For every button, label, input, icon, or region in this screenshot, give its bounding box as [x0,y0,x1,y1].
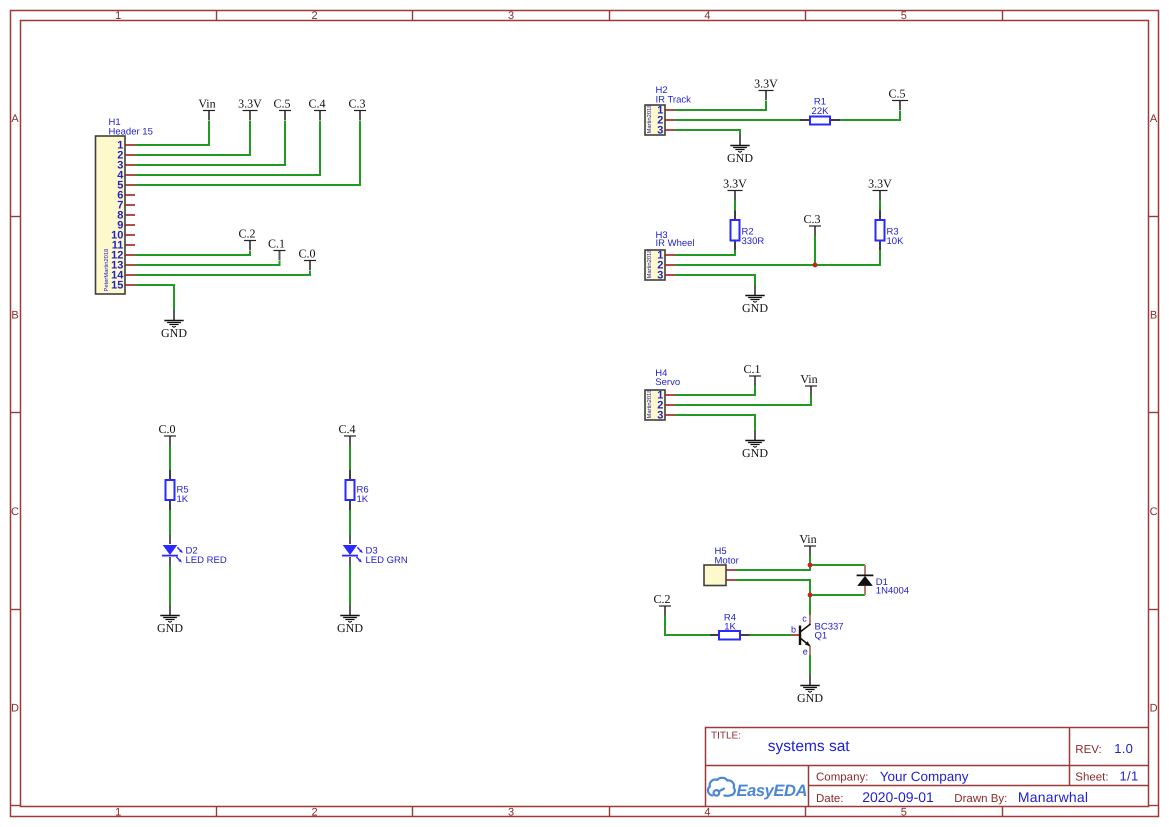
svg-text:1.0: 1.0 [1114,741,1133,756]
svg-text:REV:: REV: [1075,744,1101,756]
svg-text:2: 2 [312,807,318,819]
svg-text:5: 5 [901,807,907,819]
svg-text:C: C [11,506,19,518]
svg-text:1: 1 [115,807,121,819]
svg-text:C.5: C.5 [888,87,905,101]
svg-text:C.3: C.3 [348,97,365,111]
svg-text:1: 1 [115,10,121,22]
svg-text:TITLE:: TITLE: [711,731,741,742]
svg-text:2: 2 [312,10,318,22]
svg-text:B: B [1150,310,1157,322]
svg-text:C.4: C.4 [338,422,355,436]
svg-text:GND: GND [742,446,768,460]
svg-text:C.5: C.5 [273,97,290,111]
svg-text:Martin2018: Martin2018 [646,389,653,418]
svg-text:3.3V: 3.3V [723,177,747,191]
svg-text:D: D [1150,702,1158,714]
svg-text:4: 4 [704,807,710,819]
svg-text:3: 3 [657,125,663,137]
svg-text:GND: GND [742,301,768,315]
svg-text:Q1: Q1 [815,631,828,642]
svg-text:C.0: C.0 [298,247,315,261]
svg-text:c: c [802,613,807,623]
svg-text:Your Company: Your Company [880,769,969,784]
svg-text:Manarwhal: Manarwhal [1018,789,1088,805]
svg-text:C.2: C.2 [653,592,670,606]
svg-text:22K: 22K [812,106,830,117]
svg-text:1N4004: 1N4004 [876,586,909,597]
svg-text:Vin: Vin [198,97,215,111]
svg-text:C: C [1150,506,1158,518]
svg-text:5: 5 [901,10,907,22]
svg-text:GND: GND [337,621,363,635]
svg-text:3.3V: 3.3V [868,177,892,191]
svg-text:LED RED: LED RED [186,555,227,566]
svg-text:b: b [791,625,796,635]
svg-text:GND: GND [727,151,753,165]
svg-text:B: B [11,310,18,322]
svg-text:Drawn By:: Drawn By: [954,793,1007,805]
svg-text:C.3: C.3 [803,212,820,226]
svg-text:10K: 10K [887,236,905,247]
svg-text:GND: GND [797,691,823,705]
svg-text:3: 3 [657,270,663,282]
svg-text:Vin: Vin [799,532,816,546]
svg-text:C.4: C.4 [308,97,325,111]
svg-text:2020-09-01: 2020-09-01 [862,789,934,805]
svg-text:A: A [11,113,19,125]
svg-text:IR Wheel: IR Wheel [656,238,695,249]
svg-text:3: 3 [508,10,514,22]
svg-text:330R: 330R [742,236,765,247]
svg-text:e: e [803,647,808,657]
svg-text:3: 3 [508,807,514,819]
svg-text:15: 15 [111,280,123,292]
svg-text:Martin2018: Martin2018 [646,104,653,133]
svg-text:Date:: Date: [816,793,844,805]
svg-text:Motor: Motor [715,555,739,566]
svg-text:Company:: Company: [816,772,868,784]
svg-text:Servo: Servo [655,377,680,388]
svg-text:C.2: C.2 [238,227,255,241]
svg-text:D: D [11,702,19,714]
svg-text:EasyEDA: EasyEDA [737,782,808,800]
svg-text:4: 4 [704,10,710,22]
svg-text:C.1: C.1 [268,237,285,251]
svg-text:Martin2018: Martin2018 [646,249,653,278]
svg-text:systems sat: systems sat [768,738,851,755]
svg-text:C.1: C.1 [743,362,760,376]
svg-text:3.3V: 3.3V [238,97,262,111]
svg-text:C.0: C.0 [158,422,175,436]
svg-text:LED GRN: LED GRN [366,555,408,566]
svg-text:GND: GND [161,326,187,340]
svg-text:1K: 1K [177,494,189,505]
svg-text:3: 3 [657,410,663,422]
svg-text:IR Track: IR Track [656,95,692,106]
svg-text:1K: 1K [724,622,736,633]
svg-text:Header 15: Header 15 [109,127,153,138]
svg-text:GND: GND [157,621,183,635]
svg-text:1/1: 1/1 [1120,769,1139,784]
svg-text:Sheet:: Sheet: [1075,772,1108,784]
svg-text:A: A [1150,113,1158,125]
svg-text:3.3V: 3.3V [754,77,778,91]
svg-text:1K: 1K [357,494,369,505]
svg-text:Vin: Vin [800,372,817,386]
svg-text:PeterMartin2018: PeterMartin2018 [103,249,110,292]
